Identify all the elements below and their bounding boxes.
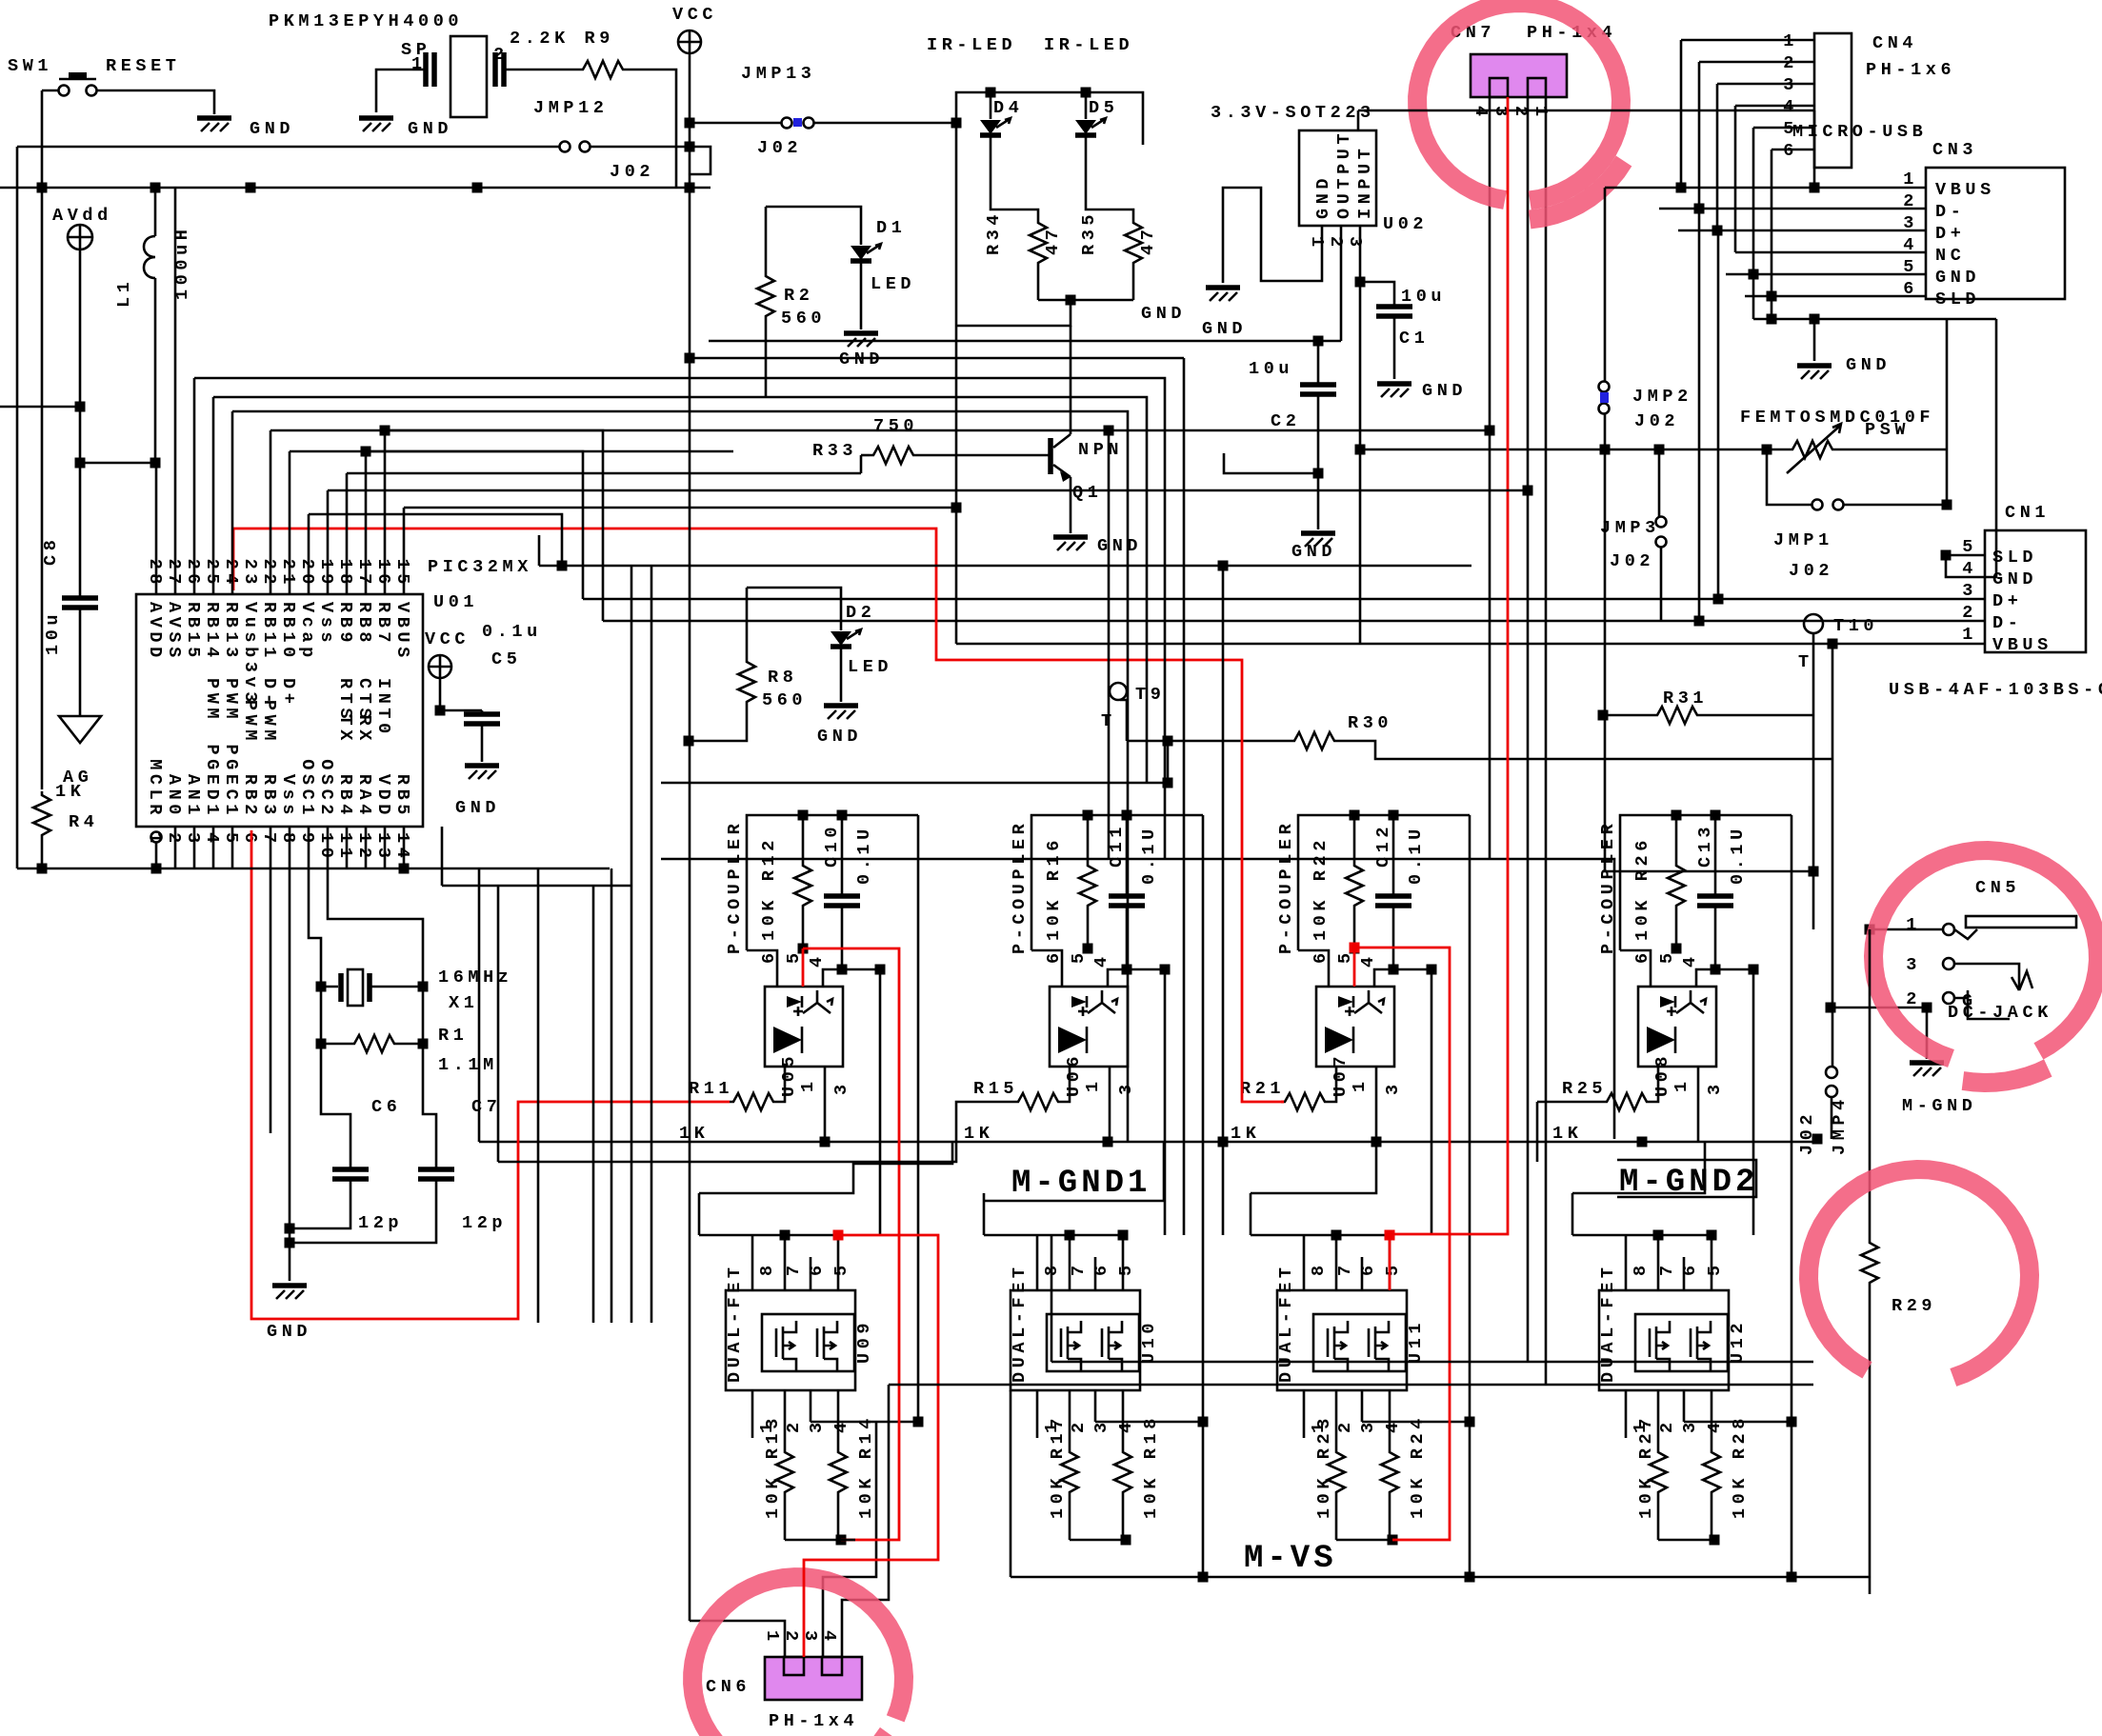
wire bus y930 [442, 885, 631, 888]
wire pin4 rail U06 [1164, 969, 1167, 1235]
circle annotation CN6 [692, 1577, 904, 1736]
svg-text:7: 7 [1069, 1261, 1089, 1276]
svg-text:10K R28: 10K R28 [1730, 1414, 1750, 1519]
svg-text:R8: R8 [768, 668, 797, 688]
ground [1301, 530, 1335, 536]
svg-text:RA4: RA4 [354, 774, 374, 819]
svg-text:Vcap: Vcap [297, 602, 317, 662]
svg-text:23: 23 [240, 559, 260, 589]
svg-text:R15: R15 [973, 1079, 1018, 1099]
wire SP pin2 to R9 [504, 69, 579, 71]
svg-text:0.1U: 0.1U [1406, 825, 1426, 885]
wire bus pin19 [327, 490, 330, 594]
wire C2 gnd jog [1224, 453, 1318, 473]
svg-text:JMP1: JMP1 [1773, 530, 1833, 550]
svg-text:OSC2: OSC2 [316, 759, 336, 819]
svg-text:2.2K R9: 2.2K R9 [510, 29, 614, 49]
wire U02 pin2 out [1340, 226, 1343, 341]
svg-text:D4: D4 [993, 98, 1023, 118]
wire box notch U06 [1031, 950, 1062, 987]
dual fet block U11 DUAL-FET [1277, 1290, 1407, 1390]
svg-text:0.1U: 0.1U [1728, 825, 1748, 885]
jumper JMP4 [1826, 1067, 1837, 1078]
svg-text:C8: C8 [41, 536, 61, 566]
wire M-GND1 bus y902 [661, 859, 1614, 871]
svg-text:SLD: SLD [1992, 548, 2037, 568]
svg-text:10K R18: 10K R18 [1141, 1414, 1161, 1519]
svg-text:C6: C6 [371, 1097, 401, 1117]
wire res bottom rail U10 [1070, 1539, 1126, 1542]
svg-text:M-VS: M-VS [1244, 1541, 1337, 1577]
wire pin4 U07 [1374, 969, 1431, 987]
wire CN4 pin1 [1681, 39, 1814, 42]
svg-text:GND: GND [1097, 536, 1142, 556]
svg-text:GND: GND [267, 1322, 311, 1342]
dual fet block U09 DUAL-FET [726, 1290, 855, 1390]
wire CN7 pin1 [1545, 97, 1548, 1385]
fet inner U11 [1313, 1314, 1406, 1371]
svg-text:3: 3 [183, 832, 203, 848]
svg-text:19: 19 [316, 559, 336, 589]
svg-text:VBUS: VBUS [392, 602, 412, 662]
wire left rail x18 [16, 147, 19, 868]
wire fet pins bottom U10 [1036, 1390, 1039, 1438]
svg-text:5: 5 [1116, 1261, 1136, 1276]
wire pin4 rail U08 [1752, 969, 1755, 1235]
wire pin3 step U09 [811, 1421, 918, 1424]
svg-text:10: 10 [316, 832, 336, 862]
wire CN6 pin3 [823, 1422, 876, 1657]
svg-text:2: 2 [784, 1418, 804, 1433]
svg-text:15: 15 [392, 559, 412, 589]
wire pin3 U05 [824, 1067, 827, 1142]
svg-text:5: 5 [1069, 948, 1089, 964]
svg-text:PKM13EPYH4000: PKM13EPYH4000 [269, 11, 463, 31]
wire red IC pin6 net [251, 830, 730, 1319]
svg-text:16MHz: 16MHz [438, 968, 513, 988]
wire rail down U12 [1791, 1193, 1793, 1422]
ground [197, 115, 231, 121]
wire CN3 NC row [1735, 251, 1926, 254]
wire bus pin25 [212, 397, 215, 594]
wire bottom pins to bus [155, 842, 158, 868]
wire base feed [661, 472, 861, 475]
rheostat PSW [1789, 441, 1836, 458]
svg-text:D+: D+ [1935, 224, 1965, 244]
wire IR box [956, 92, 1143, 326]
wire fet pins top U09 [751, 1235, 754, 1290]
wire bus y376 [690, 357, 1184, 360]
svg-text:J02: J02 [610, 162, 654, 182]
wire bus y154 [17, 146, 559, 149]
ground [1053, 534, 1088, 540]
svg-text:1: 1 [1350, 1077, 1370, 1092]
svg-text:1: 1 [1307, 236, 1327, 251]
svg-text:VCC: VCC [672, 5, 717, 25]
wire IR box bottom [956, 300, 1071, 326]
wire res bottom rail U11 [1336, 1539, 1392, 1542]
svg-text:4: 4 [1116, 1418, 1136, 1433]
svg-text:RB11: RB11 [259, 602, 279, 662]
svg-text:5: 5 [1383, 1261, 1403, 1276]
wire SW1 left to rail [42, 90, 58, 92]
svg-text:4: 4 [1091, 952, 1111, 968]
opto inner box U05 [765, 987, 843, 1067]
svg-text:7: 7 [259, 832, 279, 848]
svg-text:0.1U: 0.1U [1139, 825, 1159, 885]
wire pin3 U07 [1375, 1067, 1378, 1142]
svg-text:R1: R1 [438, 1026, 468, 1046]
svg-text:2: 2 [1335, 1418, 1355, 1433]
svg-text:14: 14 [392, 832, 412, 862]
wire fet pins bottom U09 [751, 1390, 754, 1438]
wire CN6 pin1 [690, 1621, 785, 1657]
wire to GND symbol [1813, 319, 1816, 361]
svg-text:21: 21 [278, 559, 298, 589]
svg-text:T10: T10 [1833, 616, 1878, 636]
svg-text:3: 3 [1116, 1080, 1136, 1095]
svg-text:3: 3 [1705, 1080, 1725, 1095]
svg-text:RB8: RB8 [354, 602, 374, 647]
svg-text:R30: R30 [1348, 713, 1392, 733]
wire CN4 pin6 [1772, 149, 1814, 151]
svg-text:Q1: Q1 [1072, 483, 1102, 503]
svg-text:4: 4 [1783, 97, 1798, 117]
svg-text:P-COUPLER: P-COUPLER [725, 820, 745, 954]
svg-text:U07: U07 [1331, 1052, 1351, 1097]
svg-text:R11: R11 [689, 1079, 733, 1099]
circle annotation CN5 [1873, 850, 2098, 1059]
wire JMP2 rail [1604, 188, 1607, 381]
svg-text:GND: GND [1935, 268, 1980, 288]
dual fet block U10 DUAL-FET [1011, 1290, 1140, 1390]
wire bus y912 [17, 868, 610, 870]
svg-text:RESET: RESET [106, 56, 181, 76]
wire pin3 U08 [1697, 1067, 1700, 1142]
svg-text:DC-JACK: DC-JACK [1948, 1003, 2052, 1023]
svg-text:R34: R34 [984, 210, 1004, 255]
wire JMP13 to IR-LED box [814, 122, 956, 125]
wire pin7 rail [270, 868, 272, 1133]
ground [465, 763, 499, 768]
svg-text:10u: 10u [43, 610, 63, 655]
wire CN3 D- row [1659, 208, 1926, 210]
svg-text:GND: GND [250, 119, 294, 139]
svg-text:RB5: RB5 [392, 774, 412, 819]
svg-text:JMP13: JMP13 [741, 64, 816, 84]
svg-text:4: 4 [831, 1418, 851, 1433]
svg-text:1K: 1K [55, 782, 85, 802]
fet inner U09 [762, 1314, 854, 1371]
wire CN4 pin5 [1753, 127, 1814, 130]
wire R34-R35 rail [1038, 299, 1133, 302]
wire box notch U05 [747, 950, 777, 987]
svg-text:5: 5 [831, 1261, 851, 1276]
wire red U05 to fet [803, 948, 899, 1540]
svg-text:6: 6 [1632, 948, 1652, 964]
svg-text:8: 8 [1309, 1261, 1329, 1276]
svg-text:10K R12: 10K R12 [759, 836, 779, 941]
svg-text:4: 4 [1471, 106, 1491, 121]
wire Vss to GND [289, 827, 291, 1281]
svg-text:12p: 12p [462, 1213, 507, 1233]
svg-text:0.1U: 0.1U [854, 825, 874, 885]
svg-text:VDD: VDD [373, 774, 393, 819]
svg-text:750: 750 [873, 416, 918, 436]
svg-text:10K R14: 10K R14 [856, 1414, 876, 1519]
wire AVdd down [79, 249, 82, 463]
svg-text:AN1: AN1 [183, 774, 203, 819]
svg-text:M-GND2: M-GND2 [1619, 1165, 1758, 1201]
svg-text:X1: X1 [449, 993, 478, 1013]
svg-text:U08: U08 [1652, 1052, 1672, 1097]
wire y427 stub [0, 406, 80, 409]
wire pin4 rail U05 [879, 969, 882, 1235]
wire bus y1199 [479, 1141, 1817, 1144]
svg-text:D-: D- [1992, 613, 2022, 633]
svg-text:4: 4 [1383, 1418, 1403, 1433]
wire fet pins bottom U11 [1303, 1390, 1306, 1438]
wire fet pins top U10 [1036, 1235, 1039, 1290]
wire R29 rail [1869, 929, 1872, 1239]
wire bus pin26 [193, 378, 196, 594]
wire bus y822 [661, 782, 1168, 785]
wire U02 input top [1357, 110, 1360, 130]
wire bus pin24 [231, 411, 234, 594]
svg-text:D1: D1 [876, 218, 906, 238]
svg-text:J02: J02 [757, 138, 802, 158]
svg-text:L1: L1 [114, 278, 134, 308]
wire CN7 pin2 [1527, 97, 1530, 1362]
wire bus pin17 [365, 451, 368, 594]
svg-text:28: 28 [145, 559, 165, 589]
svg-text:0.1u: 0.1u [482, 622, 542, 642]
svg-text:R25: R25 [1562, 1079, 1607, 1099]
wire bus pin28 AVdd [155, 463, 158, 594]
svg-text:R31: R31 [1663, 688, 1708, 708]
wire bus pin15 VBUS [403, 508, 406, 594]
wire pin1 U07 [1329, 1067, 1336, 1102]
svg-text:R21: R21 [1240, 1079, 1285, 1099]
wire AVdd-L1 join [80, 462, 155, 465]
wire JMP1 right [1844, 504, 1947, 507]
wire CN3 VBUS row [1605, 187, 1926, 190]
svg-text:11: 11 [335, 832, 355, 862]
svg-text:D+: D+ [1992, 591, 2022, 611]
wire VBUS net left [1358, 110, 1814, 112]
svg-text:3: 3 [1383, 1080, 1403, 1095]
wire fet bottom rails [841, 1539, 855, 1542]
wire CN5 pin2 gnd [1831, 1007, 1927, 1009]
svg-text:PWM: PWM [221, 678, 241, 723]
svg-text:8: 8 [757, 1261, 777, 1276]
wire red IC pin23 net [232, 529, 235, 590]
wire left rail x44 [41, 90, 44, 789]
wire SLD drop [1771, 296, 1773, 319]
wire pin4 U06 [1108, 969, 1165, 987]
svg-text:12p: 12p [358, 1213, 403, 1233]
wire VCC down [689, 53, 691, 188]
ground [1797, 363, 1832, 369]
svg-text:U09: U09 [854, 1319, 874, 1364]
wire U02 pin3 in [1359, 226, 1362, 644]
wire VBUS bus y676 [956, 643, 1985, 646]
svg-text:INPUT: INPUT [1355, 144, 1375, 219]
label M-GND2 [1617, 1160, 1756, 1197]
svg-text:SW1: SW1 [8, 56, 52, 76]
svg-text:5: 5 [1657, 948, 1677, 964]
svg-text:JMP3: JMP3 [1600, 518, 1660, 538]
wire bus pin21 D+ [289, 451, 291, 594]
svg-text:J02: J02 [1789, 561, 1833, 581]
svg-text:PGED1: PGED1 [202, 744, 222, 819]
wire PSW right [1836, 449, 1947, 451]
svg-text:7: 7 [784, 1261, 804, 1276]
wire JMP3 vert [1658, 449, 1661, 516]
svg-text:PIC32MX: PIC32MX [428, 557, 532, 577]
wire rail down U10 [1202, 1193, 1205, 1422]
wire CN6 pin4 [842, 1385, 889, 1657]
svg-text:J02: J02 [1610, 551, 1654, 571]
svg-text:4: 4 [1680, 952, 1700, 968]
svg-text:GND: GND [1846, 355, 1891, 375]
svg-text:PH-1x6: PH-1x6 [1866, 60, 1955, 80]
wire bus pin18 [346, 473, 349, 594]
svg-text:VCC: VCC [425, 629, 470, 649]
svg-text:7: 7 [1335, 1261, 1355, 1276]
svg-text:1: 1 [1531, 106, 1551, 121]
wire rail down U09 [917, 1193, 920, 1422]
wire bus y594 [539, 565, 1471, 568]
wire rail right U06 [1202, 815, 1205, 1193]
svg-text:RB10: RB10 [278, 602, 298, 662]
wire ch buses lower [1051, 1235, 1053, 1362]
switch SW1 [59, 86, 70, 96]
wire CN1 D+ row [583, 598, 1985, 601]
svg-text:47: 47 [1043, 226, 1063, 255]
svg-text:1: 1 [1962, 625, 1977, 645]
wire T9 down [1167, 741, 1170, 783]
wire fet top rail U12 [1572, 1234, 1712, 1237]
wire rail x1695 [1613, 871, 1616, 1139]
wire pin3 step U12 [1684, 1421, 1792, 1424]
svg-text:1: 1 [1083, 1077, 1103, 1092]
opto inner box U06 [1050, 987, 1128, 1067]
svg-text:U01: U01 [433, 592, 478, 612]
svg-text:6: 6 [240, 832, 260, 848]
wire staircase ch2 [984, 1200, 1012, 1203]
svg-text:10K R26: 10K R26 [1632, 836, 1652, 941]
svg-text:3: 3 [1345, 236, 1365, 251]
svg-text:GND: GND [839, 349, 884, 369]
svg-text:1: 1 [762, 1630, 782, 1646]
svg-text:NPN: NPN [1078, 440, 1123, 460]
wire CN4 pin4 [1735, 105, 1814, 108]
wire R9 to VCC rail [627, 70, 676, 188]
wire VCC-C5 [439, 678, 442, 710]
svg-text:3.3V-SOT223: 3.3V-SOT223 [1211, 103, 1375, 123]
wire bus pin27 [174, 188, 177, 594]
wire fet pins top U11 [1303, 1235, 1306, 1290]
wire CN3 D+ row [1678, 229, 1926, 232]
svg-text:PGEC1: PGEC1 [221, 744, 241, 819]
svg-text:PWM: PWM [259, 700, 279, 745]
svg-text:T: T [1798, 652, 1813, 672]
wire CN1 GND [1946, 555, 1985, 577]
svg-text:24: 24 [221, 559, 241, 589]
svg-text:IR-LED: IR-LED [1044, 35, 1133, 55]
svg-text:26: 26 [183, 559, 203, 589]
svg-text:6: 6 [1783, 141, 1798, 161]
svg-text:R2: R2 [784, 286, 813, 306]
svg-text:C13: C13 [1695, 823, 1715, 868]
wire res bottom rail U09 [785, 1539, 841, 1542]
wire VBUS rail x1004 [955, 326, 958, 644]
wire U05 pin6 to left bus [776, 949, 779, 952]
wire fet pins bottom U12 [1625, 1390, 1628, 1438]
svg-text:RB7: RB7 [373, 602, 393, 647]
wire red U07 pin5 [1353, 948, 1356, 987]
svg-text:R35: R35 [1079, 210, 1099, 255]
optocoupler block U08 P-COUPLER [1620, 815, 1792, 950]
wire OSC1 to crystal [309, 827, 321, 987]
svg-text:P-COUPLER: P-COUPLER [1598, 820, 1618, 954]
svg-text:C1: C1 [1399, 329, 1429, 349]
svg-text:RB14: RB14 [202, 602, 222, 662]
wire box notch U08 [1620, 950, 1651, 987]
svg-text:560: 560 [762, 690, 807, 710]
svg-text:RB4: RB4 [335, 774, 355, 819]
svg-text:U11: U11 [1406, 1319, 1426, 1364]
wire pin1 U08 [1651, 1067, 1658, 1102]
wire CN1 VBUS row [1832, 644, 1834, 871]
svg-text:27: 27 [164, 559, 184, 589]
wire CN4 pin3 [1717, 83, 1814, 86]
wire pin3 step U11 [1362, 1421, 1470, 1424]
wire pin1 U06 [1062, 1067, 1070, 1102]
svg-text:RB3: RB3 [259, 774, 279, 819]
svg-text:RB15: RB15 [183, 602, 203, 662]
optocoupler block U05 P-COUPLER [747, 815, 918, 950]
svg-text:P-COUPLER: P-COUPLER [1010, 820, 1030, 954]
wire bus pin22 D- [270, 430, 272, 594]
svg-text:GND: GND [408, 119, 452, 139]
wire mid verticals [1108, 430, 1111, 859]
svg-text:RB13: RB13 [221, 602, 241, 662]
svg-text:6: 6 [1044, 948, 1064, 964]
svg-text:D+: D+ [278, 678, 298, 708]
svg-text:J02: J02 [1634, 411, 1679, 431]
wire CN3 GND row [1726, 273, 1926, 276]
svg-text:PSW: PSW [1865, 420, 1910, 440]
wire CN5 vertical [1832, 871, 1834, 1067]
connector CN6 PH-1x4 [765, 1657, 862, 1700]
wire CN7 pin4 [1489, 97, 1491, 859]
svg-text:D5: D5 [1089, 98, 1118, 118]
svg-text:10K R24: 10K R24 [1408, 1414, 1428, 1519]
wire CN4 pin2 [1699, 61, 1814, 64]
svg-text:16: 16 [373, 559, 393, 589]
svg-text:MCLR: MCLR [145, 759, 165, 819]
wire T10 down to CN5 [1812, 871, 1815, 929]
wire pin3 step U10 [1095, 1421, 1203, 1424]
svg-text:GND: GND [1313, 174, 1333, 219]
wire GND drop [1752, 274, 1755, 319]
circle annotation R29 [1809, 1169, 2030, 1378]
wire pin4 U05 [823, 969, 880, 987]
svg-text:P-COUPLER: P-COUPLER [1276, 820, 1296, 954]
svg-text:CN3: CN3 [1932, 140, 1977, 160]
